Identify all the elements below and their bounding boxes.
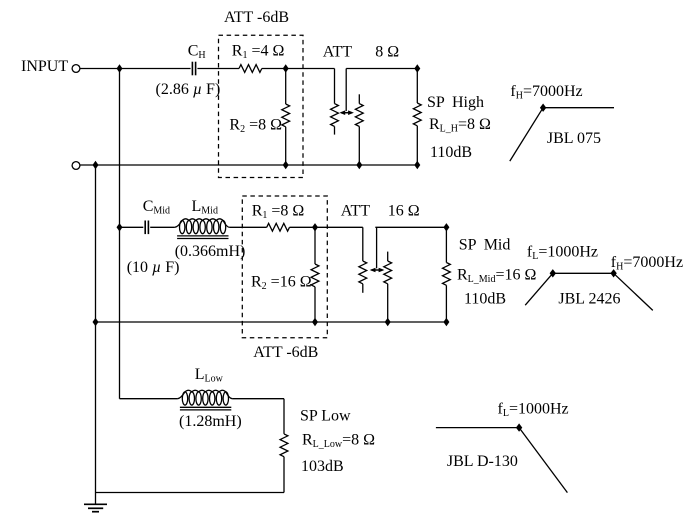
svg-text:8 Ω: 8 Ω bbox=[375, 43, 399, 60]
svg-text:ATT: ATT bbox=[323, 43, 353, 60]
svg-text:INPUT: INPUT bbox=[21, 58, 68, 75]
svg-text:RL_H​=8 Ω: RL_H​=8 Ω bbox=[429, 116, 491, 135]
svg-text:SP Low: SP Low bbox=[300, 407, 351, 424]
svg-text:R2 =16 Ω: R2 =16 Ω bbox=[251, 273, 312, 292]
svg-text:fL​=1000Hz: fL​=1000Hz bbox=[527, 244, 598, 263]
svg-text:103dB: 103dB bbox=[301, 458, 344, 475]
svg-text:ATT -6dB: ATT -6dB bbox=[224, 9, 289, 26]
svg-text:JBL 075: JBL 075 bbox=[547, 130, 601, 147]
svg-text:JBL 2426: JBL 2426 bbox=[558, 290, 620, 307]
svg-text:SP High: SP High bbox=[427, 94, 484, 111]
svg-text:R2 =8 Ω: R2 =8 Ω bbox=[229, 116, 282, 135]
svg-text:JBL D-130: JBL D-130 bbox=[447, 453, 518, 470]
svg-text:R1 =8 Ω: R1 =8 Ω bbox=[252, 203, 305, 222]
svg-text:(2.86 µ F): (2.86 µ F) bbox=[156, 81, 221, 98]
svg-text:110dB: 110dB bbox=[430, 144, 472, 161]
svg-text:110dB: 110dB bbox=[464, 290, 506, 307]
svg-text:(0.366mH): (0.366mH) bbox=[175, 243, 246, 260]
svg-text:(10 µ F): (10 µ F) bbox=[127, 259, 180, 276]
svg-text:R1 =4 Ω: R1 =4 Ω bbox=[232, 43, 285, 62]
svg-text:16 Ω: 16 Ω bbox=[388, 202, 420, 219]
svg-text:ATT: ATT bbox=[341, 202, 371, 219]
svg-text:fL​=1000Hz: fL​=1000Hz bbox=[498, 401, 569, 420]
svg-text:(1.28mH): (1.28mH) bbox=[179, 413, 242, 430]
svg-text:ATT -6dB: ATT -6dB bbox=[253, 344, 318, 361]
svg-text:SP Mid: SP Mid bbox=[459, 237, 511, 254]
